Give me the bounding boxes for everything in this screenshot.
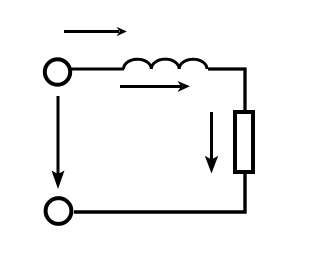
- resistor R1: [235, 112, 253, 172]
- arrow current direction top: [64, 27, 127, 37]
- wire: [208, 69, 245, 111]
- wire: [74, 172, 245, 212]
- arrow current direction resistor: [205, 112, 218, 174]
- wire: [71, 68, 125, 71]
- terminal T1: [45, 59, 70, 84]
- arrow voltage source: [52, 96, 65, 189]
- inductor L1: [124, 59, 208, 69]
- terminal T2: [46, 198, 72, 224]
- arrow current direction inductor: [120, 81, 190, 92]
